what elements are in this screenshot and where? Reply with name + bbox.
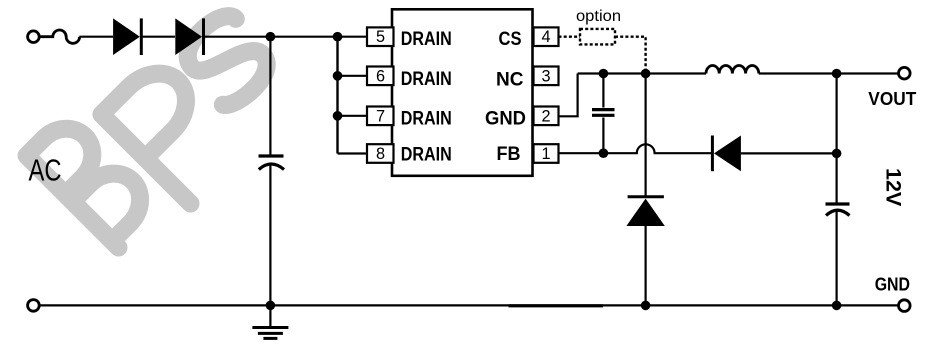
pin 1 box: [534, 144, 559, 163]
pin 3 box: [534, 67, 559, 86]
wire: inductor to VOUT: [759, 72, 898, 74]
wire: FB line with hop: [559, 144, 713, 153]
pin 6 box: [367, 67, 394, 86]
svg-text:option: option: [576, 8, 621, 25]
svg-text:3: 3: [541, 67, 550, 85]
node: junction top rail / drain bus: [333, 32, 343, 42]
schottky diode D4: [712, 136, 741, 172]
terminal VOUT: [899, 67, 911, 79]
svg-text:7: 7: [376, 107, 385, 125]
svg-text:NC: NC: [496, 70, 524, 91]
wire: GND pin2 to vcc rail: [559, 74, 578, 117]
node: bus junction pin7: [333, 111, 343, 121]
svg-text:4: 4: [541, 28, 550, 46]
pin 5 box: [367, 27, 394, 46]
svg-text:FB: FB: [497, 144, 521, 165]
op IC U1 body: [392, 9, 533, 176]
resistor option (dashed): [580, 29, 615, 45]
svg-text:6: 6: [376, 67, 385, 85]
svg-text:DRAIN: DRAIN: [401, 29, 452, 50]
node: VOUT / output cap junction: [832, 69, 842, 79]
wire: zener branch vertical: [644, 74, 646, 306]
svg-text:5: 5: [376, 28, 385, 46]
rectifier diode D1: [113, 18, 141, 55]
wire: dotted CS link left: [559, 36, 581, 38]
capacitor C3 (output cap): [826, 204, 850, 216]
wire: input cap branch: [269, 37, 271, 156]
wire: stub to pin7: [338, 115, 368, 117]
svg-text:VOUT: VOUT: [868, 89, 916, 109]
rectifier diode D2: [175, 18, 203, 55]
svg-text:GND: GND: [875, 274, 910, 294]
capacitor C1 (input bulk cap): [259, 156, 285, 305]
node: bottom rail / output cap: [832, 301, 842, 311]
wire: drain bus vertical: [336, 37, 338, 154]
svg-text:AC: AC: [29, 152, 62, 187]
node: bottom rail / input cap + ground: [266, 301, 276, 311]
svg-text:1: 1: [541, 145, 550, 163]
node: bottom rail / zener: [641, 301, 651, 311]
pin 4 box: [534, 27, 559, 46]
terminal GND: [899, 300, 911, 312]
svg-text:DRAIN: DRAIN: [401, 69, 452, 90]
watermark letter S: [176, 8, 279, 112]
pin 8 box: [367, 144, 394, 163]
node: vcc / option link junction: [641, 69, 651, 79]
svg-text:CS: CS: [499, 29, 522, 50]
node: bus junction pin6: [333, 71, 343, 81]
node: schottky / right vertical junction: [832, 149, 842, 159]
wire: stub to pin8: [338, 152, 368, 154]
fuse squiggle: [40, 30, 80, 43]
ground symbol: [252, 305, 288, 338]
svg-text:DRAIN: DRAIN: [401, 145, 452, 166]
capacitor C2 (VCC cap): [592, 74, 615, 154]
wire: bottom rail: [40, 304, 898, 306]
zener diode D3: [626, 197, 664, 226]
wire: top rail from fuse to pin5 bus: [79, 36, 367, 38]
watermark letter P: [101, 59, 245, 203]
svg-text:12V: 12V: [882, 168, 906, 207]
wire: bottom rail overlap segment: [509, 304, 604, 307]
wire: right vertical VOUT down: [835, 74, 837, 306]
svg-text:2: 2: [541, 107, 550, 125]
pin 7 box: [367, 107, 394, 126]
inductor L1: [706, 65, 759, 73]
watermark BPS: [27, 8, 279, 248]
wire: schottky to right vertical: [741, 152, 837, 154]
wire: stub to pin6: [338, 75, 368, 77]
svg-text:8: 8: [376, 145, 385, 163]
watermark letter B: [27, 115, 159, 247]
terminal: AC input top: [28, 31, 40, 43]
node: vcc / C2 junction: [599, 69, 609, 79]
wire: vcc rail to inductor: [578, 72, 706, 74]
wire: dotted CS link right: [615, 37, 646, 74]
terminal: AC input bottom: [28, 300, 40, 312]
node: junction top rail / input cap: [266, 32, 276, 42]
node: FB / C2 junction: [599, 148, 609, 158]
svg-text:DRAIN: DRAIN: [401, 109, 452, 130]
pin 2 box: [534, 107, 559, 126]
svg-text:GND: GND: [485, 109, 526, 130]
